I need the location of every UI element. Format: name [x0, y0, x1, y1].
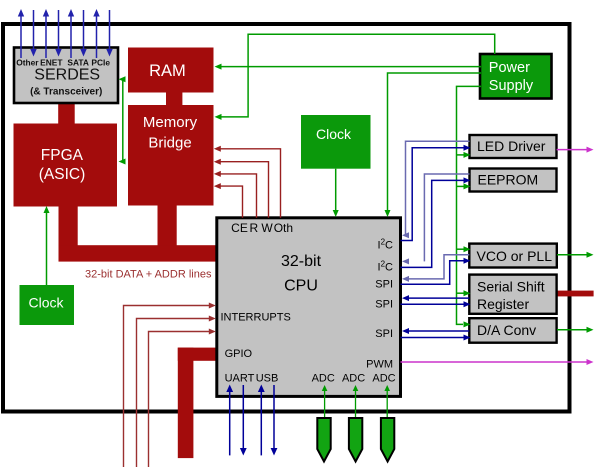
svg-text:D/A Conv: D/A Conv — [477, 322, 536, 338]
svg-text:W: W — [261, 221, 273, 235]
svg-text:(ASIC): (ASIC) — [39, 166, 86, 183]
svg-text:Power: Power — [489, 60, 530, 76]
svg-text:SPI: SPI — [375, 279, 393, 291]
svg-text:32-bit DATA + ADDR lines: 32-bit DATA + ADDR lines — [85, 269, 212, 281]
svg-text:R: R — [249, 221, 258, 235]
svg-text:ADC: ADC — [342, 373, 365, 385]
svg-text:ADC: ADC — [312, 373, 335, 385]
svg-text:Memory: Memory — [143, 114, 198, 131]
svg-text:SPI: SPI — [375, 299, 393, 311]
svg-text:EEPROM: EEPROM — [478, 171, 539, 187]
svg-text:I2C: I2C — [378, 259, 394, 274]
svg-text:GPIO: GPIO — [225, 348, 253, 360]
svg-text:Register: Register — [477, 296, 529, 312]
svg-text:I2C: I2C — [378, 237, 394, 252]
svg-text:VCO or PLL: VCO or PLL — [477, 248, 553, 264]
svg-text:RAM: RAM — [149, 62, 186, 80]
svg-text:Bridge: Bridge — [148, 135, 191, 152]
svg-text:SPI: SPI — [375, 328, 393, 340]
svg-text:Clock: Clock — [316, 126, 352, 142]
svg-text:UART: UART — [225, 373, 255, 385]
svg-text:CPU: CPU — [284, 278, 318, 295]
svg-text:32-bit: 32-bit — [281, 253, 322, 270]
svg-text:Clock: Clock — [28, 295, 64, 311]
svg-text:SERDES: SERDES — [34, 67, 100, 84]
svg-text:FPGA: FPGA — [41, 147, 84, 164]
svg-text:ADC: ADC — [372, 373, 395, 385]
svg-text:Supply: Supply — [489, 78, 534, 94]
svg-text:USB: USB — [256, 373, 279, 385]
svg-text:INTERRUPTS: INTERRUPTS — [221, 312, 291, 324]
svg-text:(& Transceiver): (& Transceiver) — [30, 87, 102, 98]
svg-text:PWM: PWM — [366, 359, 393, 371]
svg-text:Serial Shift: Serial Shift — [477, 279, 545, 295]
svg-text:Oth: Oth — [274, 221, 293, 235]
svg-text:LED Driver: LED Driver — [477, 138, 546, 154]
svg-text:CE: CE — [231, 221, 248, 235]
